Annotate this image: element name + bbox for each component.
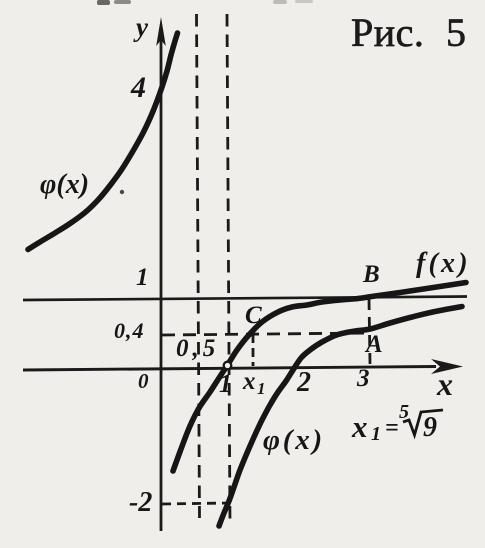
svg-text:B: B xyxy=(362,261,380,288)
svg-text:C: C xyxy=(245,302,262,329)
svg-text:1: 1 xyxy=(257,379,266,398)
svg-text:x: x xyxy=(436,366,453,402)
svg-text:4: 4 xyxy=(130,71,146,104)
svg-text:1: 1 xyxy=(371,423,381,445)
svg-text:1: 1 xyxy=(136,264,149,291)
svg-text:x: x xyxy=(351,409,368,444)
svg-text:5: 5 xyxy=(399,401,409,423)
svg-text:1: 1 xyxy=(219,369,232,398)
svg-text:0,5: 0,5 xyxy=(176,335,219,362)
svg-text:3: 3 xyxy=(356,365,370,392)
svg-text:0: 0 xyxy=(138,369,149,393)
svg-text:φ(x): φ(x) xyxy=(40,169,89,200)
svg-text:A: A xyxy=(364,331,383,358)
svg-text:y: y xyxy=(133,12,149,42)
svg-text:x: x xyxy=(242,368,256,395)
svg-text:φ(x): φ(x) xyxy=(263,424,325,456)
svg-text:=: = xyxy=(385,415,399,441)
svg-text:2: 2 xyxy=(296,367,311,398)
svg-text:9: 9 xyxy=(423,412,437,443)
svg-text:f(x): f(x) xyxy=(416,248,471,279)
svg-text:Рис.: Рис. xyxy=(351,10,424,55)
svg-text:5: 5 xyxy=(446,10,466,55)
svg-text:-2: -2 xyxy=(129,487,152,518)
svg-text:0,4: 0,4 xyxy=(114,318,145,343)
